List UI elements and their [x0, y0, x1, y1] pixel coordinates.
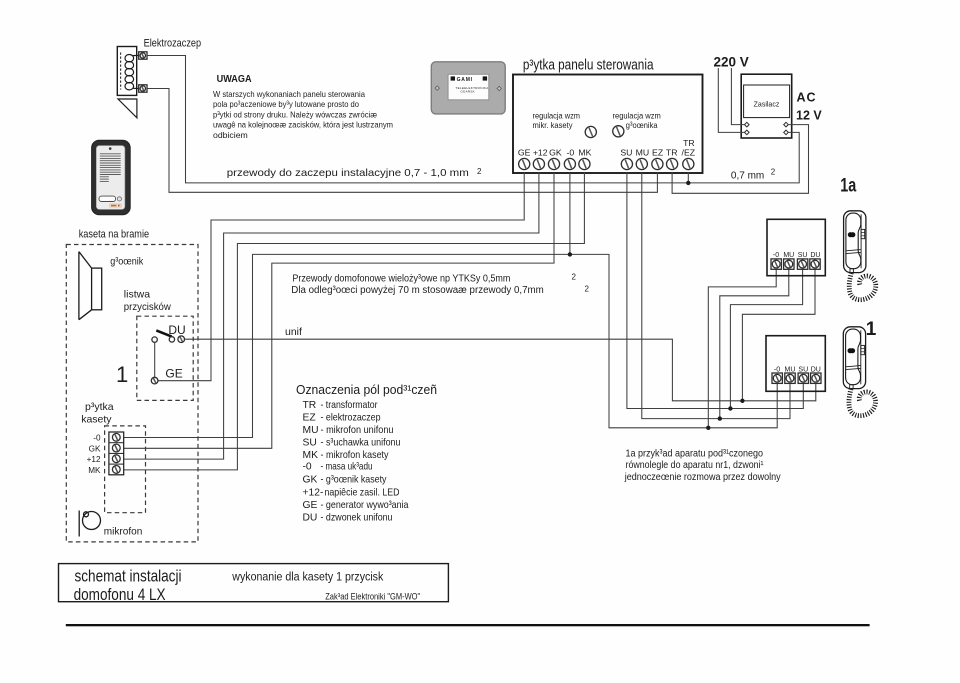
wire net TR : panel TR to supply diamond — [672, 125, 808, 194]
svg-text:GE: GE — [303, 500, 318, 511]
svg-text:GAMI: GAMI — [457, 77, 473, 83]
wire net MK : panel MK to kaseta MK — [124, 172, 584, 470]
svg-text:SU: SU — [620, 147, 632, 157]
wire net -0 branch to unifons — [570, 254, 777, 427]
svg-text:GDAÑSK: GDAÑSK — [461, 89, 475, 94]
svg-text:kaseta na bramie: kaseta na bramie — [79, 229, 149, 241]
svg-text:1: 1 — [116, 362, 128, 387]
svg-text:unif: unif — [285, 326, 302, 338]
wire unifon 1a -0 down link — [708, 264, 776, 428]
terminal EZ (panel) — [652, 147, 664, 169]
unifon junction box 1 — [766, 336, 825, 392]
potentiometer P2 regulacja wzm g³oœnika — [613, 111, 661, 137]
electric strike terminal 1 — [139, 52, 147, 59]
kaseta terminal +12 — [87, 455, 121, 464]
title block — [59, 564, 449, 602]
unifon 1a terminal DU — [810, 259, 820, 269]
junction -0 — [568, 252, 572, 256]
svg-text:przewody do zaczepu instalacyj: przewody do zaczepu instalacyjne 0,7 - 1… — [227, 167, 469, 179]
legend entries — [303, 400, 409, 524]
wire net SU : panel SU to unifon 1 SU — [627, 172, 803, 409]
terminal +12 (panel) — [533, 147, 548, 169]
svg-text:MU: MU — [303, 425, 319, 436]
power supply PS1 (Zasilacz) — [741, 74, 792, 138]
svg-text:Zak³ad Elektroniki "GM-WO": Zak³ad Elektroniki "GM-WO" — [325, 591, 420, 601]
svg-text:+12-: +12- — [303, 488, 324, 499]
svg-text:/EZ: /EZ — [682, 147, 696, 157]
svg-text:przycisków: przycisków — [124, 301, 171, 313]
wire net EZ : strike terminal 2 to panel EZ — [147, 89, 658, 193]
svg-text:DU: DU — [168, 323, 185, 337]
svg-text:UWAGA: UWAGA — [217, 73, 252, 85]
power supply terminal diamonds — [745, 122, 789, 134]
terminal -0 (panel) — [564, 147, 575, 169]
svg-text:0,7 mm: 0,7 mm — [731, 171, 764, 182]
unifon junction box 1a — [767, 219, 825, 275]
junction -0 parallel — [706, 426, 710, 430]
svg-text:GE: GE — [518, 147, 531, 157]
note parallel connection — [624, 449, 781, 484]
svg-text:- transformator: - transformator — [321, 400, 378, 411]
telephone handset 1 — [843, 327, 875, 416]
note UWAGA body — [213, 89, 393, 140]
svg-text:wykonanie dla kasety 1 przycis: wykonanie dla kasety 1 przycisk — [231, 570, 384, 584]
svg-text:MK: MK — [578, 147, 591, 157]
wire net GE : panel GE to button switch — [158, 172, 524, 381]
button switch S1 arm — [156, 330, 171, 336]
svg-text:schemat instalacji: schemat instalacji — [75, 568, 182, 586]
unifon 1 terminal SU — [798, 373, 808, 383]
control panel board U1 (p³ytka panelu sterowania) — [513, 75, 703, 174]
svg-text:Dla odleg³oœci powyżej 70 m s: Dla odleg³oœci powyżej 70 m stosowaæ prz… — [291, 285, 544, 296]
svg-text:EZ: EZ — [652, 147, 664, 157]
svg-text:MU: MU — [785, 366, 796, 373]
svg-text:DU: DU — [303, 513, 318, 524]
svg-text:-0: -0 — [567, 147, 575, 157]
wire 220V line 1 — [731, 68, 744, 125]
svg-text:+12: +12 — [533, 147, 548, 157]
svg-text:odbiciem: odbiciem — [213, 130, 248, 140]
wire TR/EZ terminal stub — [687, 172, 689, 183]
unifon 1a terminal labels — [773, 252, 821, 259]
svg-text:1a przyk³ad aparatu pod³¹czone: 1a przyk³ad aparatu pod³¹czonego — [626, 449, 764, 460]
unifon 1 terminal MU — [785, 373, 795, 383]
svg-text:AC: AC — [797, 91, 817, 105]
wire unifon 1a MU down link — [720, 264, 789, 419]
svg-text:MK: MK — [303, 450, 319, 461]
svg-text:- masa uk³adu: - masa uk³adu — [321, 462, 373, 473]
wire TR/EZ to supply diamond — [688, 132, 799, 183]
kaseta terminal MK — [88, 466, 120, 475]
electric strike coil — [125, 55, 139, 90]
svg-text:EZ: EZ — [303, 413, 316, 424]
svg-text:mikr. kasety: mikr. kasety — [533, 120, 574, 130]
unifon 1 terminal -0 — [772, 373, 782, 383]
wire net -0 : panel -0 to kaseta -0 — [124, 172, 570, 438]
svg-text:-0: -0 — [773, 252, 779, 259]
loudspeaker LS1 (g³oœnik) — [79, 252, 102, 320]
svg-text:2: 2 — [771, 168, 776, 177]
svg-text:regulacja wzm: regulacja wzm — [533, 111, 581, 121]
terminal TR/EZ (panel) — [682, 138, 696, 170]
gate unit enclosure (kaseta na bramie) dashed — [66, 245, 198, 542]
wire unifon 1a SU down link — [730, 264, 802, 409]
unifon 1 terminal DU — [811, 373, 821, 383]
unifon 1a terminal MU — [784, 259, 794, 269]
svg-text:GK: GK — [303, 475, 318, 486]
terminal GE (panel) — [518, 147, 531, 169]
junction MU parallel — [718, 416, 722, 420]
svg-text:napiêcie zasil. LED: napiêcie zasil. LED — [325, 488, 400, 499]
svg-text:MK: MK — [88, 466, 101, 475]
junction SU parallel — [728, 406, 732, 410]
terminal SU (panel) — [620, 147, 632, 169]
switch link wire — [154, 342, 156, 377]
electric strike wedge — [118, 99, 137, 118]
unifon 1 terminal labels — [774, 366, 821, 373]
terminal MU (panel) — [636, 147, 650, 169]
svg-text:- mikrofon kasety: - mikrofon kasety — [321, 450, 390, 461]
svg-text:- g³oœnik kasety: - g³oœnik kasety — [321, 475, 388, 486]
svg-text:GK: GK — [89, 444, 101, 453]
svg-text:równolegle do aparatu nr1, dzw: równolegle do aparatu nr1, dzwoni¹ — [626, 460, 765, 471]
svg-text:g³oœnika: g³oœnika — [626, 120, 658, 130]
svg-text:p³ytki od strony druku. Należy: p³ytki od strony druku. Należy wówczas z… — [213, 109, 377, 119]
svg-text:+12: +12 — [87, 455, 101, 464]
switch throw contact — [169, 337, 174, 342]
telephone handset 1a — [844, 211, 876, 300]
button strip box (listwa przycisków) dashed — [137, 316, 193, 400]
svg-text:- generator wywo³ania: - generator wywo³ania — [321, 500, 409, 511]
svg-text:12 V: 12 V — [796, 109, 822, 123]
svg-text:listwa: listwa — [124, 289, 150, 301]
kaseta terminal GK — [89, 444, 121, 453]
module GM label plate — [431, 62, 505, 114]
potentiometer P1 regulacja wzm mikr. kasety — [533, 111, 597, 138]
svg-text:- s³uchawka unifonu: - s³uchawka unifonu — [321, 438, 401, 449]
svg-text:220 V: 220 V — [714, 55, 749, 70]
door station photo — [92, 140, 131, 214]
wire net DU (unif) : button switch to unifon 1 DU — [185, 339, 816, 401]
wire net MU : panel MU to unifon 1 MU — [642, 172, 790, 419]
microphone M1 — [79, 511, 100, 537]
svg-text:pola po³aczeniowe by³y lutowan: pola po³aczeniowe by³y lutowane prosto d… — [213, 99, 359, 109]
junction TR/EZ — [686, 181, 690, 185]
svg-text:Zasilacz: Zasilacz — [754, 102, 780, 109]
svg-text:SU: SU — [303, 438, 317, 449]
junction DU parallel — [740, 399, 744, 403]
electric strike EZ (Elektrozaczep) body — [117, 47, 136, 96]
svg-text:2: 2 — [585, 285, 590, 294]
terminal TR (panel) — [666, 147, 678, 169]
gate unit pcb box (p³ytka kasety) dashed — [105, 426, 146, 513]
svg-text:jednoczeœnie rozmowa przez dow: jednoczeœnie rozmowa przez dowolny — [624, 472, 781, 483]
wire 220V line 2 — [718, 68, 744, 132]
svg-text:Oznaczenia pól pod³¹czeñ: Oznaczenia pól pod³¹czeñ — [296, 382, 437, 397]
svg-text:uwagê na kolejnoœæ zacisków, k: uwagê na kolejnoœæ zacisków, która jest … — [213, 120, 393, 130]
svg-text:DU: DU — [811, 366, 821, 373]
svg-text:GE: GE — [165, 367, 182, 381]
svg-text:-0: -0 — [774, 366, 780, 373]
svg-text:GK: GK — [549, 147, 562, 157]
switch pivot contact — [152, 337, 157, 342]
kaseta terminal block — [109, 432, 124, 475]
svg-text:kasety: kasety — [81, 413, 112, 425]
unifon 1a terminal SU — [797, 259, 807, 269]
svg-text:domofonu 4 LX: domofonu 4 LX — [74, 586, 166, 604]
bottom rule — [66, 624, 870, 626]
svg-text:TR: TR — [303, 400, 317, 411]
switch screw DU — [178, 336, 185, 343]
svg-text:2: 2 — [477, 167, 482, 176]
svg-text:-0: -0 — [303, 462, 312, 473]
svg-text:Przewody domofonowe wieloży³ow: Przewody domofonowe wieloży³owe np YTKSy… — [292, 274, 510, 285]
svg-text:Elektrozaczep: Elektrozaczep — [144, 38, 202, 50]
wire unifon 1a DU down link — [742, 264, 815, 401]
terminal GK (panel) — [548, 147, 561, 169]
svg-text:MU: MU — [783, 252, 794, 259]
wire net +12 : panel +12 to kaseta +12 — [124, 172, 539, 459]
svg-text:- elektrozaczep: - elektrozaczep — [321, 413, 381, 424]
svg-text:SU: SU — [798, 366, 808, 373]
svg-text:- dzwonek unifonu: - dzwonek unifonu — [321, 513, 393, 524]
svg-text:SU: SU — [798, 252, 808, 259]
wire net GK : panel GK to kaseta GK — [124, 172, 554, 448]
svg-text:- mikrofon unifonu: - mikrofon unifonu — [321, 425, 394, 436]
svg-text:1a: 1a — [840, 175, 856, 196]
wire net TR/EZ : strike terminal 1 to panel TR/EZ and supply — [147, 56, 689, 183]
svg-text:p³ytka panelu sterowania: p³ytka panelu sterowania — [523, 58, 654, 74]
svg-text:regulacja wzm: regulacja wzm — [613, 111, 661, 121]
svg-text:mikrofon: mikrofon — [104, 527, 143, 538]
svg-text:MU: MU — [636, 147, 650, 157]
svg-text:p³ytka: p³ytka — [85, 401, 114, 413]
kaseta terminal -0 — [93, 433, 120, 442]
svg-text:TR: TR — [666, 147, 678, 157]
svg-text:2: 2 — [572, 273, 577, 282]
svg-text:g³oœnik: g³oœnik — [110, 256, 144, 268]
svg-text:DU: DU — [810, 252, 820, 259]
svg-text:W starszych wykonaniach panelu: W starszych wykonaniach panelu sterowani… — [213, 89, 365, 99]
unifon 1a terminal -0 — [771, 259, 781, 269]
terminal MK (panel) — [578, 147, 591, 169]
svg-text:1: 1 — [866, 319, 877, 340]
svg-text:-0: -0 — [93, 434, 101, 443]
electric strike terminal 2 — [139, 85, 147, 92]
switch screw GE — [151, 377, 158, 384]
